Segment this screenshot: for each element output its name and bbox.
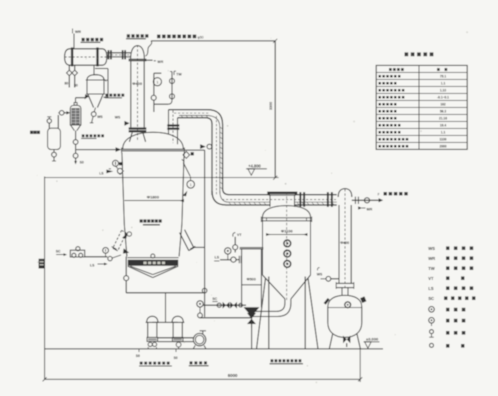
vent curl on C1 dome <box>146 41 152 56</box>
evaporator dome (top head) <box>123 132 184 149</box>
vapor duct lower horizontal run to columns <box>229 194 270 196</box>
evaporator bottom drain piping to receivers <box>125 257 127 276</box>
seal tank side stubs (dark) <box>324 298 330 305</box>
column C2 body flange with bolt ticks <box>261 217 311 219</box>
svg-text:1.1: 1.1 <box>441 81 446 85</box>
separator S2 label <box>105 94 108 97</box>
svg-text:56.3: 56.3 <box>440 109 446 113</box>
filter label <box>82 134 85 137</box>
filter top pipe with arrow to separator cone <box>75 98 77 104</box>
vessel V5 dark cone bottom and valve <box>244 307 260 316</box>
svg-text:WS: WS <box>115 116 121 120</box>
svg-text:Φ1800: Φ1800 <box>147 195 160 200</box>
arrow into bottom section <box>122 233 128 239</box>
pipe trough tanks to pump <box>158 337 194 339</box>
filter (activated carbon) hatched body with cone bottom <box>70 105 81 125</box>
svg-text:WR: WR <box>367 208 373 212</box>
svg-text:VT: VT <box>428 276 434 281</box>
svg-text:S0: S0 <box>174 356 178 360</box>
dimension 6000 at bottom <box>45 378 361 380</box>
vapor duct neck on dome with dark flange pair <box>168 110 170 135</box>
evaporator bottom cone (double line) <box>128 266 153 277</box>
column C2 shoulder dome <box>263 206 311 218</box>
evaporator bottom left angled nozzle (dashed hidden) <box>113 230 122 248</box>
seal tank sight glass <box>345 302 351 308</box>
SC condensate cluster (bottom center-right) <box>197 301 203 307</box>
column C2 sight glasses (3 circles) <box>284 240 291 247</box>
drum (small feed tank) with side label <box>48 128 61 149</box>
discharge pump (double circle) <box>193 333 205 345</box>
svg-text:SC: SC <box>212 297 217 301</box>
receiver tank A (hat dome vertical tank) <box>147 316 158 322</box>
receiver tank B (hat dome) <box>172 316 183 322</box>
pipe E2 bottom to separator S2 and bypass loop <box>93 66 95 75</box>
seal tank under C3: neck <box>341 288 343 295</box>
svg-text:WS: WS <box>428 246 435 251</box>
svg-text:S0: S0 <box>80 160 84 164</box>
legend thermometer symbol <box>429 318 435 324</box>
drum bottom valve <box>53 150 55 153</box>
svg-text:Φ400: Φ400 <box>132 81 142 86</box>
condenser E2 label 2# <box>82 38 85 41</box>
condenser E2 (2# horizontal shell-and-tube) body <box>65 49 70 65</box>
svg-text:19.4: 19.4 <box>440 123 446 127</box>
thermometer on evaporator right side <box>183 163 190 177</box>
svg-text:F: F <box>378 193 380 197</box>
svg-text:LS: LS <box>428 286 434 291</box>
vapor duct vertical run <box>211 124 213 195</box>
svg-text:75.1: 75.1 <box>440 74 446 78</box>
svg-text:φ50: φ50 <box>198 35 204 39</box>
vapor duct lower elbow to horizontal <box>212 191 226 205</box>
left border line <box>44 177 46 380</box>
arrow and valve circle right of dome <box>200 144 206 149</box>
pump discharge line with junction to evaporator nozzle <box>85 256 108 258</box>
svg-text:21.16: 21.16 <box>439 116 447 120</box>
seal tank body <box>328 295 362 307</box>
svg-text:1100: 1100 <box>440 137 447 141</box>
evaporator heater dark band <box>127 257 178 259</box>
svg-text:1.1: 1.1 <box>441 130 446 134</box>
legend pressure gauge symbol <box>429 307 435 313</box>
table rows text <box>379 75 381 78</box>
svg-text:WR: WR <box>75 30 81 34</box>
legend globe valve symbol <box>430 330 434 334</box>
svg-text:LS: LS <box>90 263 95 267</box>
svg-text:2000: 2000 <box>439 144 446 148</box>
column C2 cone bottom <box>263 275 285 299</box>
table header <box>389 68 392 71</box>
svg-text:1: 1 <box>156 80 158 84</box>
labels under receivers and pump <box>138 349 140 352</box>
svg-text:LS: LS <box>99 171 104 175</box>
evaporator top flange <box>122 148 185 150</box>
svg-text:±0.000: ±0.000 <box>366 337 379 342</box>
filter inlet from drum: riser, valves <box>57 115 59 128</box>
left nozzle root circle <box>127 232 131 236</box>
evaporator body shell <box>122 153 124 225</box>
vertical pipe right of evaporator <box>204 150 206 317</box>
svg-text:80: 80 <box>65 82 69 86</box>
svg-text:TW: TW <box>428 266 435 271</box>
vapor duct elbow down <box>208 110 223 125</box>
duct flange pairs (dark bars) <box>299 192 301 207</box>
svg-text:S0: S0 <box>136 354 140 358</box>
TW instrument loop at column C1 <box>144 59 152 61</box>
svg-text:102: 102 <box>440 102 446 106</box>
svg-text:80: 80 <box>74 84 78 88</box>
svg-text:6000: 6000 <box>228 373 238 378</box>
vapor duct upper horizontal run <box>169 109 208 111</box>
column C2 barometric outlet elbow to drain <box>284 299 286 303</box>
duct hatch ticks <box>181 116 183 118</box>
diamond valve and tag on evaporator right flange line <box>184 149 204 151</box>
svg-text:Φ500: Φ500 <box>247 278 256 282</box>
svg-text:WR: WR <box>428 256 435 261</box>
column C1 (1# condenser, phi400 on evaporator dome) <box>131 46 145 60</box>
column C1 label 1# <box>127 34 130 37</box>
label condensate drain (right) <box>271 359 274 362</box>
svg-text:SC: SC <box>56 249 61 253</box>
vessel V5 (phi500) shell <box>240 247 264 249</box>
svg-text:TW: TW <box>176 72 182 76</box>
svg-text:WS: WS <box>317 272 323 276</box>
filter bottom drain to feed line, valves, SO <box>75 131 77 140</box>
seal tank legs <box>329 334 332 349</box>
evaporator bottom right angled nozzle <box>185 230 194 248</box>
feed line from filter into evaporator top flange <box>76 149 116 151</box>
pipe E2 to column C1 with flanges <box>107 52 131 54</box>
svg-text:1.10: 1.10 <box>440 88 446 92</box>
revision tag block at left border <box>39 259 45 269</box>
column C2 diameter dimension arrow <box>266 234 308 236</box>
svg-text:WS: WS <box>97 115 103 119</box>
technical characteristics table title <box>405 52 409 56</box>
column C3 bottom flange <box>336 282 354 284</box>
svg-text:+4.800: +4.800 <box>248 164 261 169</box>
svg-text:LS: LS <box>215 255 220 259</box>
pressure gauge on pump discharge <box>103 248 109 254</box>
column C3 (2# condenser phi400) dome <box>338 189 352 197</box>
seal tank bottom valve (dark) <box>343 336 347 344</box>
legend ball valve symbol <box>430 343 434 347</box>
grade / ground line <box>45 348 383 350</box>
vertical drop of vent header / dimension 3300 <box>274 41 276 178</box>
pipe from right nozzle to vertical <box>193 246 204 248</box>
evaporator inner heater label <box>140 219 143 222</box>
junction circle on vertical pipe <box>202 288 207 293</box>
column C1 bottom flange (dark) and skirt to dome <box>129 127 147 129</box>
vent line from C3 to vacuum pump house <box>352 199 379 201</box>
column C2 legs <box>268 277 270 349</box>
svg-text:3300: 3300 <box>269 102 273 110</box>
svg-text:-0.1~0.1: -0.1~0.1 <box>437 95 449 99</box>
vent header line to atmosphere with text <box>151 40 275 42</box>
drum left top stub valve <box>47 119 51 123</box>
svg-text:WR: WR <box>157 60 163 64</box>
drain header and barometric leg to grade <box>200 317 252 319</box>
svg-text:SC: SC <box>428 296 434 301</box>
scan noise specks <box>168 70 170 72</box>
table frame <box>376 65 467 149</box>
heater band center circle <box>151 254 155 258</box>
elevation reference line +4.800 across drawing <box>45 177 279 179</box>
separator S2 (2# separator with cone) <box>87 75 104 80</box>
evaporator left side: pressure gauge over valve <box>113 160 119 166</box>
column C3 shell <box>338 205 340 283</box>
column C2 shell <box>262 217 264 275</box>
column C2 (1# wet condenser phi1100) neck with bolted flange <box>269 195 271 207</box>
diamond valve pair under E2 left end <box>68 65 70 70</box>
svg-text:1: 1 <box>190 183 192 187</box>
pipe WR riser on E2 <box>73 34 75 49</box>
